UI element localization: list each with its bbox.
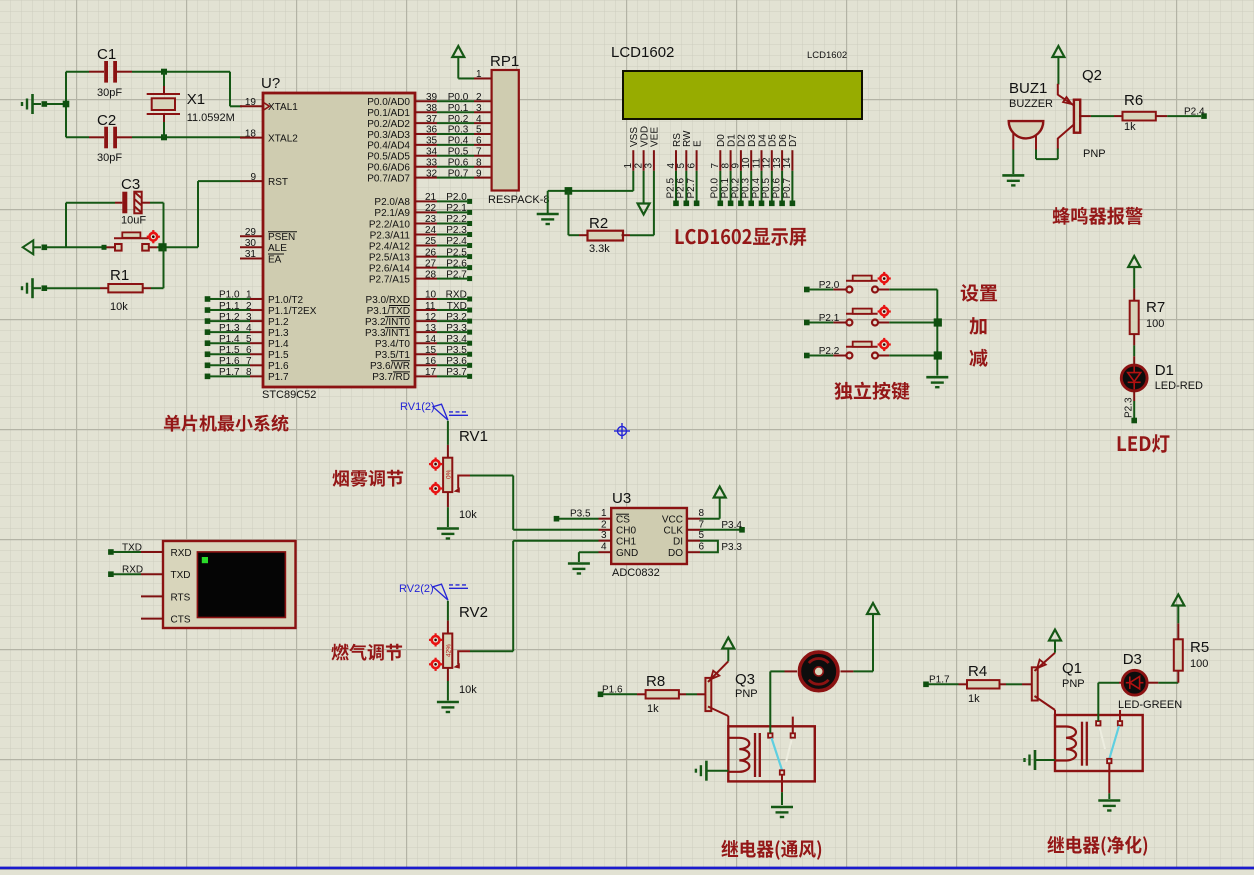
- wire R8 to Q3 base: [679, 693, 706, 695]
- svg-text:LCD1602: LCD1602: [611, 44, 674, 61]
- svg-text:VEE: VEE: [650, 127, 661, 147]
- relay RL1 body: [728, 726, 815, 781]
- terminal pin TXD: [141, 570, 191, 581]
- node XTAL1 net junction: [161, 69, 167, 75]
- lcd pin 7 D0: [710, 134, 727, 171]
- wire RV2 wiper to CH1: [470, 541, 599, 652]
- ground terminal (left of crystal): [22, 94, 47, 114]
- wire P1.6 to R8: [603, 693, 646, 695]
- lcd wire terminal P0.5: [761, 171, 774, 206]
- mcu pin 9 RST: [240, 172, 288, 188]
- target marker (button P2.0): [878, 272, 891, 285]
- svg-text:5: 5: [476, 125, 482, 136]
- target marker (button P2.2): [878, 338, 891, 351]
- terminal pin RXD: [141, 548, 192, 559]
- svg-text:P2.2/A10: P2.2/A10: [369, 219, 411, 230]
- annotation plus: [969, 317, 986, 335]
- svg-text:1k: 1k: [968, 693, 980, 705]
- label C2 value 30pF: [97, 152, 122, 164]
- mcu pin 10 RXD terminal: [366, 290, 473, 306]
- resistor R2: [588, 231, 624, 241]
- svg-text:P2.5: P2.5: [446, 247, 467, 258]
- svg-text:3: 3: [644, 163, 655, 169]
- lcd wire terminal P0.1: [720, 171, 733, 206]
- resistor R8: [646, 690, 679, 698]
- svg-text:TXD: TXD: [122, 542, 142, 553]
- svg-text:24: 24: [425, 225, 437, 236]
- svg-text:P1.0/T2: P1.0/T2: [268, 295, 303, 306]
- capacitor C3: [122, 192, 141, 214]
- led D1: [1121, 365, 1147, 391]
- svg-text:P0.1: P0.1: [448, 103, 469, 114]
- svg-text:RV2: RV2: [459, 604, 488, 621]
- wire D3 to R5: [1147, 671, 1178, 683]
- svg-text:RTS: RTS: [171, 592, 191, 603]
- lcd wire terminal P0.0: [710, 171, 723, 206]
- svg-text:10k: 10k: [459, 684, 477, 696]
- relay RL1 coil: [728, 738, 749, 772]
- lcd pin 10 D3: [741, 134, 758, 171]
- svg-text:29: 29: [245, 227, 257, 238]
- lcd pin 6 E: [686, 140, 703, 171]
- svg-text:P3.3: P3.3: [446, 323, 467, 334]
- node bus junction P2.2: [934, 351, 942, 359]
- wire C3 net: [66, 202, 164, 204]
- label Q1 PNP: [1062, 678, 1085, 690]
- svg-text:Q3: Q3: [735, 671, 755, 688]
- terminal pin CTS: [141, 615, 191, 626]
- svg-text:P0.7: P0.7: [448, 168, 469, 179]
- mcu pin 7 P1.6 with net label: [205, 356, 289, 372]
- wire RST net: [198, 181, 240, 247]
- power terminal (R5): [1172, 595, 1184, 606]
- svg-text:U3: U3: [612, 490, 631, 507]
- relay RL1 contact NO: [768, 733, 772, 737]
- lcd pin 12 D5: [762, 134, 779, 171]
- target marker (RV1 bottom): [429, 482, 442, 495]
- node VSS/R2 junction: [565, 187, 573, 195]
- svg-text:RV1: RV1: [459, 428, 488, 445]
- svg-text:CLK: CLK: [664, 526, 684, 537]
- svg-text:C1: C1: [97, 46, 116, 63]
- relay RL2 contact NO: [1096, 721, 1100, 725]
- label D1: [1155, 362, 1174, 379]
- svg-text:P0.7/AD7: P0.7/AD7: [367, 173, 410, 184]
- mcu pin 28 P2.7 terminal: [369, 269, 472, 285]
- mcu pin 19 XTAL1: [240, 97, 298, 113]
- wire RV2 top: [447, 601, 449, 634]
- wire R2 branch: [568, 191, 587, 235]
- svg-text:35: 35: [426, 136, 438, 147]
- svg-text:7: 7: [476, 147, 482, 158]
- buzzer BUZ1: [1009, 121, 1044, 149]
- svg-text:P1.4: P1.4: [268, 339, 289, 350]
- mcu pin 30 ALE: [240, 238, 287, 254]
- svg-text:RXD: RXD: [171, 548, 192, 559]
- svg-text:P1.3: P1.3: [219, 323, 240, 334]
- transistor Q1: [1032, 653, 1055, 715]
- wire VEE to R2: [653, 171, 655, 235]
- wire C1 top net: [66, 71, 230, 73]
- label RESPACK-8: [488, 194, 550, 206]
- svg-text:TXD: TXD: [171, 570, 191, 581]
- relay RL2 coil: [1055, 727, 1076, 761]
- svg-text:30pF: 30pF: [97, 87, 122, 99]
- wire VSS to ground: [548, 171, 634, 213]
- lcd wire terminal P0.3: [741, 171, 754, 206]
- wire RV1 top: [447, 421, 449, 458]
- wire GND pin: [579, 552, 599, 562]
- svg-text:30: 30: [245, 238, 257, 249]
- wire buzzer emitter: [1036, 149, 1058, 160]
- relay RL2 contact NC: [1118, 710, 1122, 726]
- node bus junction P2.1: [934, 318, 942, 326]
- svg-text:10k: 10k: [459, 509, 477, 521]
- svg-text:P0.2: P0.2: [448, 114, 469, 125]
- mcu pin 4 P1.3 with net label: [205, 323, 289, 339]
- mcu pin 32 P0.7 wire to RP1 pin 9: [367, 168, 491, 184]
- svg-text:11.0592M: 11.0592M: [187, 112, 235, 124]
- svg-text:12: 12: [425, 312, 437, 323]
- mcu XTAL1 clock mark: [264, 103, 270, 110]
- annotation LED lamp: [1118, 434, 1170, 453]
- svg-text:P1.6: P1.6: [219, 356, 240, 367]
- svg-text:14: 14: [425, 334, 437, 345]
- svg-text:LED-RED: LED-RED: [1155, 380, 1203, 392]
- capacitor C2: [104, 127, 117, 149]
- svg-text:11: 11: [425, 301, 436, 312]
- svg-text:P2.5/A13: P2.5/A13: [369, 252, 411, 263]
- label LCD1602 title: [611, 44, 674, 61]
- mcu pin 26 P2.5 terminal: [369, 247, 472, 263]
- wire motor left to contact: [770, 671, 797, 733]
- svg-text:P2.6: P2.6: [446, 258, 467, 269]
- annotation set: [961, 284, 997, 302]
- wire DI-DO bridge: [700, 541, 718, 553]
- target marker (RV2 bottom): [429, 658, 442, 671]
- svg-text:ADC0832: ADC0832: [612, 567, 660, 579]
- node reset junction: [158, 243, 166, 251]
- svg-text:XTAL1: XTAL1: [268, 102, 298, 113]
- label net P3.3: [721, 542, 742, 553]
- wire TXD net: [108, 542, 142, 555]
- svg-text:31: 31: [245, 249, 257, 260]
- lcd pin 4 RS: [666, 133, 683, 171]
- wire C3 left: [65, 202, 67, 204]
- svg-text:36: 36: [426, 125, 438, 136]
- lcd pin 8 D1: [720, 134, 737, 171]
- svg-text:P0.2/AD2: P0.2/AD2: [367, 119, 410, 130]
- mcu pin 17 P3.7 terminal: [372, 367, 472, 383]
- annotation mcu system: [164, 415, 289, 432]
- transistor Q3: [705, 661, 728, 726]
- potentiometer RV1: [443, 458, 470, 493]
- lcd wire terminal P2.6: [676, 171, 689, 206]
- resistor R6: [1123, 112, 1156, 121]
- annotation independent keys: [834, 382, 909, 400]
- svg-text:X1: X1: [187, 91, 205, 108]
- svg-text:BUZ1: BUZ1: [1009, 80, 1047, 97]
- lcd pin 13 D6: [772, 134, 789, 171]
- label C2: [97, 112, 116, 129]
- svg-text:P1.1/T2EX: P1.1/T2EX: [268, 306, 317, 317]
- svg-text:14: 14: [782, 157, 793, 169]
- svg-text:P1.5: P1.5: [219, 345, 240, 356]
- svg-text:P0.6: P0.6: [448, 157, 469, 168]
- svg-text:P1.1: P1.1: [219, 301, 240, 312]
- wire CLK to P3.4: [700, 520, 745, 533]
- svg-text:RV2(2): RV2(2): [399, 583, 434, 595]
- svg-text:DO: DO: [668, 548, 683, 559]
- mcu pin 2 P1.1 with net label: [205, 301, 317, 317]
- svg-text:XTAL2: XTAL2: [268, 133, 298, 144]
- svg-text:P2.4: P2.4: [446, 236, 467, 247]
- mcu pin 8 P1.7 with net label: [205, 367, 289, 383]
- svg-text:P3.3: P3.3: [721, 542, 742, 553]
- ground (RV2): [437, 702, 459, 712]
- wire VDD with power-down terminal: [638, 171, 650, 215]
- push button P2.0: [804, 276, 937, 293]
- svg-text:4: 4: [246, 323, 252, 334]
- label RV2: [459, 604, 488, 621]
- lcd pin 14 D7: [782, 134, 799, 171]
- svg-text:CTS: CTS: [171, 615, 191, 626]
- svg-text:P3.2: P3.2: [446, 312, 467, 323]
- adc pin 6 DO: [668, 542, 705, 559]
- svg-text:8: 8: [246, 367, 252, 378]
- wire RV2 bottom to ground: [447, 668, 449, 701]
- ground (RV1): [437, 529, 459, 539]
- lcd display body: [623, 71, 862, 119]
- svg-text:21: 21: [425, 192, 437, 203]
- svg-text:2: 2: [246, 301, 252, 312]
- mcu pin 36 P0.3 wire to RP1 pin 5: [367, 125, 491, 141]
- svg-text:D7: D7: [788, 134, 799, 147]
- label C1: [97, 46, 116, 63]
- svg-text:38: 38: [426, 103, 438, 114]
- relay RL2 common: [1107, 759, 1111, 794]
- label R6: [1124, 92, 1143, 109]
- wire relay1 common to ground: [781, 792, 783, 805]
- svg-text:8: 8: [476, 157, 482, 168]
- svg-text:15: 15: [425, 345, 437, 356]
- svg-text:LED-GREEN: LED-GREEN: [1118, 699, 1182, 711]
- svg-text:39: 39: [426, 92, 438, 103]
- label STC89C52: [262, 389, 316, 401]
- mcu pin 15 P3.5 terminal: [375, 345, 472, 361]
- label RV2 value 10k: [459, 684, 477, 696]
- svg-text:7: 7: [246, 356, 252, 367]
- sheet border bottom: [0, 867, 1254, 870]
- svg-text:P0.1/AD1: P0.1/AD1: [367, 108, 410, 119]
- svg-text:R6: R6: [1124, 92, 1143, 109]
- svg-text:P2.1/A9: P2.1/A9: [374, 208, 410, 219]
- mcu pin 12 P3.2 terminal: [365, 312, 472, 328]
- wire relay2 common to ground: [1108, 793, 1110, 799]
- svg-text:10uF: 10uF: [121, 215, 146, 227]
- wire C2 bottom net: [66, 136, 246, 138]
- respack RP1 body: [492, 70, 519, 191]
- svg-text:R1: R1: [110, 267, 129, 284]
- label R7: [1146, 299, 1165, 316]
- probe RV1(2): [400, 401, 468, 420]
- label C1 value 30pF: [97, 87, 122, 99]
- power terminal (Q2): [1052, 46, 1064, 85]
- svg-text:P2.2: P2.2: [446, 214, 467, 225]
- svg-text:DI: DI: [673, 537, 683, 548]
- svg-text:P2.3: P2.3: [446, 225, 467, 236]
- push button P2.2: [804, 342, 937, 359]
- adc U3 body: [611, 508, 687, 564]
- wire R5 to power: [1177, 606, 1179, 639]
- svg-text:P1.0: P1.0: [219, 290, 240, 301]
- mcu pin 23 P2.2 terminal: [369, 214, 472, 230]
- target marker (RV1 top): [429, 458, 442, 471]
- svg-text:42%: 42%: [446, 644, 453, 657]
- ground (relay1 common): [771, 807, 793, 817]
- resistor R4: [967, 680, 1000, 688]
- adc pin 4 GND: [599, 542, 639, 559]
- wire RXD net: [108, 565, 143, 578]
- mcu pin 11 TXD terminal: [367, 301, 472, 317]
- svg-text:P3.3/INT1: P3.3/INT1: [365, 328, 410, 339]
- svg-text:P2.6/A14: P2.6/A14: [369, 263, 411, 274]
- mcu pin 29 PSEN: [240, 227, 297, 243]
- svg-text:P1.2: P1.2: [268, 317, 289, 328]
- relay RL2 core: [1082, 722, 1087, 766]
- label R2 value 3.3k: [589, 243, 610, 255]
- label R5 value 100: [1190, 658, 1208, 670]
- svg-text:P0.3: P0.3: [448, 125, 469, 136]
- wire C3 right vertical: [163, 203, 165, 248]
- svg-text:P0.4: P0.4: [448, 136, 469, 147]
- svg-text:RESPACK-8: RESPACK-8: [488, 194, 550, 206]
- svg-text:P1.5: P1.5: [268, 350, 289, 361]
- svg-text:9: 9: [250, 172, 256, 183]
- mcu pin 22 P2.1 terminal: [374, 203, 472, 219]
- label net P2.3 rotated: [1124, 397, 1135, 418]
- svg-text:25: 25: [425, 236, 437, 247]
- label Q3: [735, 671, 755, 688]
- ground (adc): [568, 564, 590, 574]
- svg-text:R2: R2: [589, 215, 608, 232]
- ground (buttons): [926, 377, 948, 387]
- svg-text:RXD: RXD: [446, 290, 467, 301]
- svg-text:27: 27: [425, 258, 437, 269]
- svg-text:1k: 1k: [1124, 121, 1136, 133]
- svg-text:1k: 1k: [647, 703, 659, 715]
- svg-text:E: E: [692, 140, 703, 147]
- svg-text:9: 9: [476, 168, 482, 179]
- svg-text:6: 6: [686, 163, 697, 169]
- svg-text:P3.4: P3.4: [446, 334, 467, 345]
- wire RV1 wiper to CH0: [470, 476, 599, 530]
- svg-text:CH0: CH0: [616, 526, 636, 537]
- svg-text:P0.5: P0.5: [448, 147, 469, 158]
- svg-text:P0.0: P0.0: [448, 92, 469, 103]
- lcd pin 11 D4: [751, 134, 768, 171]
- label R5: [1190, 639, 1209, 656]
- wire buzzer to ground: [1012, 150, 1014, 175]
- svg-text:P3.2/INT0: P3.2/INT0: [365, 317, 410, 328]
- svg-text:P0.3/AD3: P0.3/AD3: [367, 130, 410, 141]
- mcu pin 3 P1.2 with net label: [205, 312, 289, 328]
- lcd wire terminal P0.2: [730, 171, 743, 206]
- svg-text:5: 5: [246, 334, 252, 345]
- label Q2 PNP: [1083, 148, 1106, 160]
- svg-text:P3.6/WR: P3.6/WR: [370, 361, 410, 372]
- svg-text:R5: R5: [1190, 639, 1209, 656]
- wire VCC power: [700, 487, 726, 519]
- svg-text:P0.6/AD6: P0.6/AD6: [367, 163, 410, 174]
- svg-text:P3.6: P3.6: [446, 356, 467, 367]
- label R6 value 1k: [1124, 121, 1136, 133]
- label ADC0832: [612, 567, 660, 579]
- label C3 value 10uF: [121, 215, 146, 227]
- transistor Q2: [1058, 84, 1080, 150]
- target marker (RV2 top): [429, 633, 442, 646]
- svg-text:R4: R4: [968, 663, 987, 680]
- terminal P1.7: [923, 675, 950, 688]
- potentiometer RV2: [443, 634, 470, 669]
- svg-text:P3.7: P3.7: [446, 367, 467, 378]
- mcu pin 14 P3.4 terminal: [375, 334, 472, 350]
- svg-text:13: 13: [425, 323, 437, 334]
- svg-text:10: 10: [425, 290, 437, 301]
- mcu pin 34 P0.5 wire to RP1 pin 7: [367, 147, 491, 163]
- resistor R1: [47, 284, 164, 292]
- mcu pin 18 XTAL2: [240, 128, 298, 144]
- label Q3 PNP: [735, 688, 758, 700]
- wire R6 to P2.4: [1156, 113, 1207, 119]
- mcu pin 5 P1.4 with net label: [205, 334, 289, 350]
- wire Q2 base to R6: [1079, 115, 1123, 117]
- ground (buzzer): [1002, 175, 1024, 185]
- relay RL1 common: [780, 770, 784, 792]
- svg-text:PNP: PNP: [1083, 148, 1106, 160]
- svg-text:7: 7: [699, 519, 705, 530]
- mcu pin 24 P2.3 terminal: [370, 225, 473, 241]
- svg-text:P1.6: P1.6: [268, 361, 289, 372]
- svg-text:P1.7: P1.7: [219, 367, 240, 378]
- ground (lcd VSS): [537, 214, 559, 224]
- annotation smoke adjust: [332, 470, 403, 487]
- svg-text:C3: C3: [121, 176, 140, 193]
- wire contact to D3: [1098, 683, 1122, 721]
- label R4 value 1k: [968, 693, 980, 705]
- svg-text:P2.4: P2.4: [1184, 106, 1205, 117]
- svg-text:100: 100: [1190, 658, 1208, 670]
- label R1: [110, 267, 129, 284]
- lcd wire terminal P0.6: [772, 171, 785, 206]
- svg-text:P3.4: P3.4: [721, 520, 742, 531]
- svg-text:P2.3: P2.3: [1124, 397, 1135, 418]
- svg-text:3: 3: [476, 103, 482, 114]
- label Q2: [1082, 67, 1102, 84]
- power terminal (Q1): [1049, 630, 1061, 653]
- svg-text:10k: 10k: [110, 301, 128, 313]
- svg-text:P2.0/A8: P2.0/A8: [374, 197, 410, 208]
- wire R7 to D1: [1133, 345, 1135, 364]
- svg-text:EA: EA: [268, 254, 282, 265]
- label net P2.4: [1184, 106, 1205, 117]
- input terminal arrow (reset row): [23, 240, 47, 254]
- mcu pin 39 P0.0 wire to RP1 pin 2: [367, 92, 491, 108]
- adc pin 7 CLK: [664, 519, 705, 536]
- label C3: [121, 176, 140, 193]
- label X1: [187, 91, 205, 108]
- svg-text:BUZZER: BUZZER: [1009, 98, 1053, 110]
